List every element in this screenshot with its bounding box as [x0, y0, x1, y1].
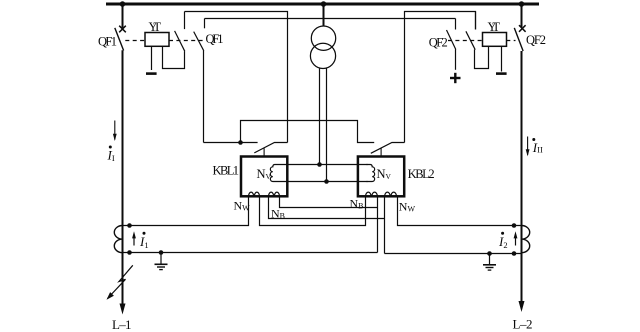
- wire dashed trip line QF2: [448, 40, 516, 42]
- contact KBL2 blade: [371, 143, 405, 154]
- svg-text:QF2: QF2: [429, 36, 448, 50]
- breaker QF2 blade: [514, 28, 523, 51]
- CT2 (current transformer right): [522, 226, 530, 253]
- coil Nw KBL2 (right winding humps): [385, 192, 397, 196]
- ground right: [483, 254, 496, 271]
- contact KBL1 blade: [254, 143, 287, 153]
- wire dashed trip line QF1: [125, 40, 205, 42]
- contact QF1 aux a (top lead): [184, 12, 186, 30]
- ground left: [155, 253, 168, 270]
- contact QF1 aux b (top lead): [204, 19, 206, 29]
- arrow I-II (right feeder current): [526, 137, 530, 157]
- node bus-left junction: [120, 1, 126, 7]
- wire bottom right run (CT2 return): [385, 253, 522, 255]
- svg-text:YT: YT: [488, 20, 501, 34]
- wire right feeder main: [521, 51, 523, 301]
- wire Nv top run: [279, 164, 368, 166]
- node bus-right junction: [519, 1, 525, 7]
- arrow L-1 end: [120, 304, 126, 315]
- bus W (top busbar): [106, 3, 539, 6]
- svg-text:KBL2: KBL2: [408, 167, 435, 181]
- wire contact b bottom lead: [203, 51, 205, 143]
- breaker QF1 (cross contact mark): [119, 26, 126, 33]
- contact QF2 aux b top lead: [475, 12, 477, 30]
- wire Nw2 right lead to CT2 top: [398, 197, 522, 226]
- coil Nv KBL2: [367, 165, 375, 182]
- wire bottom left run (CT1 return): [123, 252, 378, 254]
- wire right feeder upper: [521, 4, 523, 27]
- coil NB KBL1 (right winding humps): [269, 192, 280, 196]
- wire left feeder upper: [122, 4, 124, 28]
- wire NB1 left lead run R2: [269, 197, 385, 219]
- fault bolt on L-1: [107, 265, 133, 299]
- wire YT right lead to contact: [163, 46, 185, 68]
- coil NB KBL2 (left winding humps): [366, 192, 378, 196]
- arrow I2 (CT2 secondary current): [514, 231, 518, 245]
- wire YT right lead: [501, 46, 503, 71]
- contact KBL2 tick: [380, 148, 382, 157]
- arrow I-I (left feeder current): [113, 121, 117, 142]
- node ground left tap: [159, 250, 164, 255]
- svg-text:KBL1: KBL1: [213, 163, 240, 177]
- svg-text:QF1: QF1: [98, 34, 117, 48]
- contact QF2 aux a top lead: [455, 19, 457, 30]
- relay KBL2 box: [358, 157, 404, 197]
- node CT2 bottom tap: [512, 251, 517, 256]
- wire transformer secondary b: [326, 68, 328, 181]
- power minus right: [496, 72, 507, 75]
- node CT1 top tap: [127, 223, 132, 228]
- coil YT right (trip coil box): [483, 33, 507, 47]
- power minus left: [146, 72, 157, 75]
- wire KBL2 NB right lead down: [377, 197, 379, 253]
- transformer T circle 2: [310, 43, 335, 68]
- node CT2 top tap: [512, 223, 517, 228]
- relay KBL1 box: [241, 157, 287, 197]
- wire YT left lead: [151, 46, 153, 70]
- svg-text:YT: YT: [149, 20, 162, 34]
- contact QF2 aux a blade: [447, 30, 456, 50]
- svg-text:L–1: L–1: [112, 317, 132, 332]
- wire Nw1 left lead to CT1 top: [123, 197, 249, 226]
- wire loop QF2b to KBL2 blade: [405, 12, 476, 143]
- svg-text:QF1: QF1: [206, 32, 224, 46]
- wire left feeder main: [122, 50, 124, 305]
- arrow I1 (CT1 secondary current): [132, 231, 136, 245]
- wire transformer secondary a: [319, 68, 321, 165]
- wire Nv bottom run: [279, 181, 368, 183]
- svg-text:L–2: L–2: [513, 317, 533, 332]
- breaker QF1 blade: [115, 28, 124, 51]
- svg-text:QF2: QF2: [526, 33, 546, 47]
- node KBL1 trip junction: [238, 140, 243, 145]
- breaker QF2 (cross contact mark): [519, 25, 526, 32]
- wire loop QF1a to KBL1 blade: [185, 12, 288, 143]
- transformer T primary lead: [323, 4, 325, 26]
- node CT1 bottom tap: [127, 250, 132, 255]
- contact QF1 aux a blade: [175, 31, 185, 51]
- wire contact b to YT left lead: [475, 46, 489, 68]
- wire KBL1 fixed lead: [204, 142, 258, 144]
- coil Nv KBL1: [270, 165, 278, 182]
- node Nv top junction: [317, 162, 322, 167]
- node bus-center junction: [321, 1, 327, 7]
- wire Nw1 right to NB2 left (run B): [260, 197, 366, 226]
- transformer T circle 1: [311, 26, 335, 50]
- arrow L-2 end: [519, 301, 525, 312]
- wire KBL2 Nw left lead down: [384, 197, 386, 254]
- power plus right: [450, 73, 461, 83]
- contact QF1 aux b blade: [194, 32, 204, 51]
- wire NB1 right lead run R1: [280, 197, 378, 208]
- contact KBL1 tick: [263, 148, 265, 156]
- coil YT left (trip coil box): [145, 33, 169, 47]
- wire cross line QF1b to QF2a: [205, 18, 456, 20]
- contact QF2 aux b blade: [466, 31, 475, 49]
- coil Nw KBL1 (left winding humps): [249, 192, 260, 196]
- wire contact a bottom lead: [455, 49, 457, 70]
- node Nv bottom junction: [324, 179, 329, 184]
- wire W2 cross to KBL2 fixed lead: [241, 121, 375, 143]
- node ground right tap: [487, 251, 492, 256]
- CT1 (current transformer left): [114, 226, 122, 253]
